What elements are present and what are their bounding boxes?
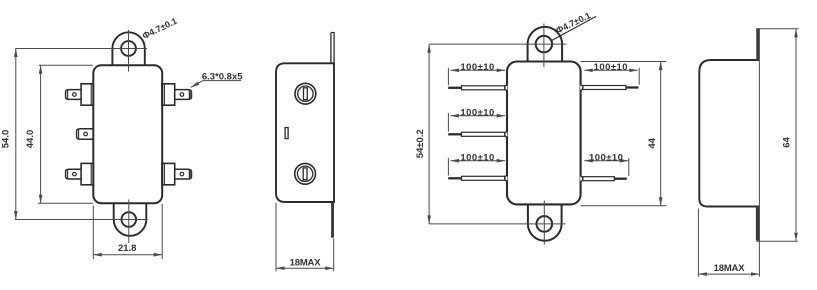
svg-text:44.0: 44.0	[25, 130, 36, 149]
svg-text:54.0: 54.0	[1, 130, 12, 149]
svg-text:18MAX: 18MAX	[290, 258, 322, 269]
svg-text:21.8: 21.8	[118, 243, 137, 254]
svg-text:100±10: 100±10	[460, 152, 494, 163]
svg-text:64: 64	[782, 137, 793, 148]
svg-text:100±10: 100±10	[460, 107, 494, 118]
svg-text:44: 44	[647, 137, 658, 148]
svg-text:18MAX: 18MAX	[714, 263, 746, 274]
svg-text:100±10: 100±10	[460, 62, 494, 73]
svg-text:54±0.2: 54±0.2	[415, 129, 426, 158]
svg-text:100±10: 100±10	[594, 62, 628, 73]
svg-text:100±10: 100±10	[589, 152, 623, 163]
